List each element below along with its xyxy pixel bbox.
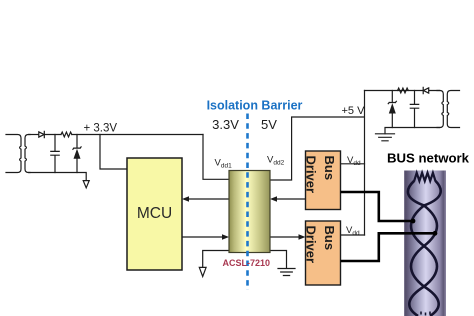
wire isolator to MCU (RX) xyxy=(188,198,229,200)
svg-text:3.3V: 3.3V xyxy=(212,117,239,132)
svg-text:MCU: MCU xyxy=(137,205,172,222)
wire bottom rail xyxy=(29,173,87,181)
svg-text:Driver: Driver xyxy=(304,226,319,264)
wire 5V bottom rail xyxy=(385,128,440,134)
junction node dot 2 xyxy=(433,231,438,236)
resistor R2 xyxy=(398,88,409,93)
wire Vdd1 drop to isolator xyxy=(203,135,229,180)
cable continuation dots xyxy=(421,312,430,316)
isolator U2 ACSL-7210 xyxy=(229,171,270,253)
thick bus wire from U3 xyxy=(341,192,413,221)
wire isolator right ground xyxy=(270,251,287,269)
bus driver U3 label xyxy=(304,156,338,194)
wire +3.3V rail xyxy=(72,134,203,136)
junction node dot 1 xyxy=(411,219,416,224)
arrowhead into isolator left xyxy=(222,234,229,240)
wire Vdd tap to bus driver U4 xyxy=(341,234,365,236)
diode D2 xyxy=(423,87,429,93)
twisted pair wire B xyxy=(409,181,440,316)
wire top rail from T1 to diode D1 xyxy=(29,134,39,136)
bus driver U4 xyxy=(306,221,341,285)
wire +5V net xyxy=(270,91,365,236)
wire bus driver U3 to isolator (RX2) xyxy=(276,198,306,200)
svg-text:ACSL-7210: ACSL-7210 xyxy=(223,258,271,268)
transformer T1 left winding xyxy=(6,135,21,173)
svg-text:BUS network: BUS network xyxy=(387,151,470,166)
bus driver U3 xyxy=(306,151,341,210)
arrowhead into MCU xyxy=(182,196,189,202)
diode D1 xyxy=(39,131,45,137)
capacitor C2 xyxy=(410,91,418,128)
arrowhead into bus driver U4 xyxy=(299,234,306,240)
arrowhead into isolator right xyxy=(270,196,277,202)
twisted pair wire A xyxy=(408,181,439,316)
wire 5V top rail xyxy=(365,90,440,92)
zener diode Z2 xyxy=(388,91,396,128)
svg-text:Bus: Bus xyxy=(322,156,337,181)
isolation barrier dashed line xyxy=(246,114,249,291)
wire isolator left ground xyxy=(203,251,229,268)
zener Z1 anode triangle xyxy=(74,149,81,159)
bus driver U4 label xyxy=(304,226,338,264)
thick bus wire from U4 xyxy=(341,233,435,261)
svg-text:5V: 5V xyxy=(261,117,277,132)
capacitor C1 xyxy=(51,135,59,173)
bus cable tube xyxy=(404,171,446,316)
svg-text:+5 V: +5 V xyxy=(342,105,366,117)
wire +3.3V branch to MCU xyxy=(100,135,127,170)
ground arrow (isolator left) xyxy=(199,267,206,276)
wire isolator to bus driver U4 (TX2) xyxy=(270,236,300,238)
earth ground (isolator right) xyxy=(278,269,295,276)
svg-text:+ 3.3V: + 3.3V xyxy=(84,122,118,134)
earth ground (5V supply) xyxy=(376,134,395,141)
svg-text:Isolation Barrier: Isolation Barrier xyxy=(207,99,303,113)
transformer T2 left winding xyxy=(437,91,443,128)
svg-text:Driver: Driver xyxy=(304,156,319,194)
ground arrow (3.3V supply) xyxy=(83,181,89,188)
MCU U1 xyxy=(127,158,182,270)
wire D1 to node C1 to R1 xyxy=(44,134,61,136)
zener Z2 anode triangle xyxy=(389,103,396,113)
twisted pair cut zigzag xyxy=(414,173,436,182)
transformer T1 right winding xyxy=(25,135,30,173)
transformer T2 right winding xyxy=(447,91,459,128)
wire Vdd tap to bus driver U3 xyxy=(341,163,365,165)
resistor R1 xyxy=(61,132,72,137)
zener diode Z1 xyxy=(73,135,81,173)
svg-text:Bus: Bus xyxy=(322,226,337,251)
wire MCU to isolator (TX) xyxy=(182,236,224,238)
